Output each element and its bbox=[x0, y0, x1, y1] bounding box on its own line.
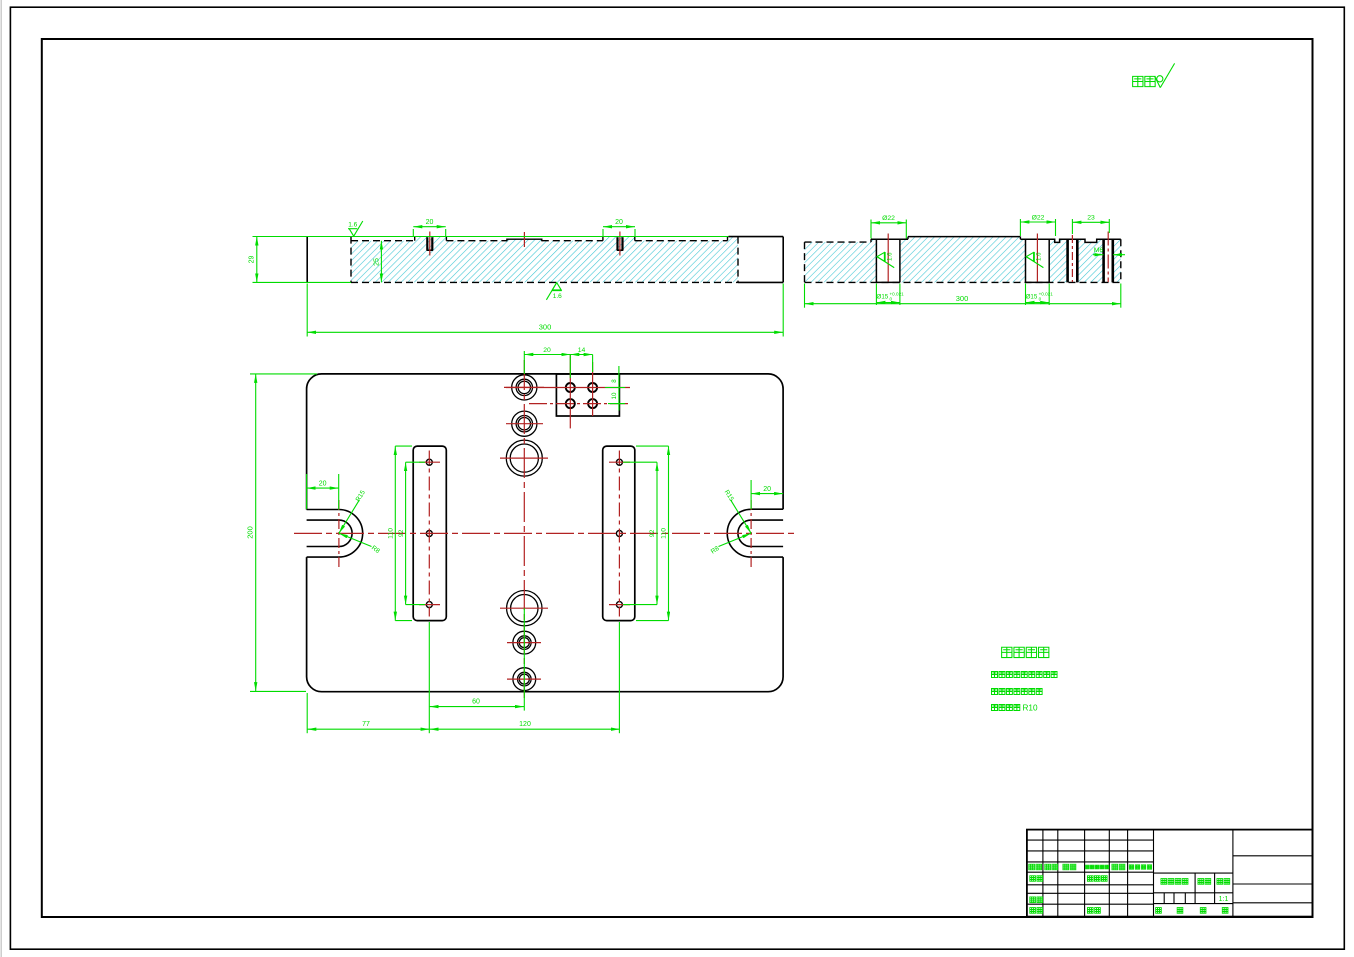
pattern holes row2 centerline bbox=[529, 403, 630, 405]
svg-text:14: 14 bbox=[578, 347, 586, 354]
dimension 110 left slot bbox=[394, 446, 396, 620]
dimension 20 right notch bbox=[751, 493, 783, 495]
left slot holes bbox=[426, 459, 432, 465]
dimension 92 right slot bbox=[656, 462, 658, 604]
left slot bbox=[413, 446, 446, 620]
front view boss centerline bbox=[523, 232, 525, 247]
svg-text:1.6: 1.6 bbox=[1036, 252, 1043, 261]
hole C4 large bbox=[507, 591, 542, 626]
hole C5 small bbox=[513, 631, 536, 654]
tech req line 2 bbox=[991, 688, 997, 694]
plan view plate outline bbox=[307, 374, 783, 692]
surface finish symbol 1.6 top bbox=[349, 229, 354, 237]
front view hatch area bbox=[351, 237, 738, 283]
side view hole band 1 white bbox=[876, 239, 900, 283]
4-hole pattern box bbox=[556, 374, 619, 416]
hole C6 small bbox=[513, 668, 536, 691]
plan center column centerline bbox=[523, 360, 525, 700]
hole C2 cross bbox=[506, 423, 543, 425]
surface finish symbol 1.6 bottom bbox=[552, 283, 561, 290]
svg-text:92: 92 bbox=[649, 529, 656, 537]
dimension D15 tolerance hole 2 bbox=[1025, 284, 1027, 306]
right slot hole crosses bbox=[609, 461, 630, 463]
svg-text:M6: M6 bbox=[1094, 247, 1104, 254]
pattern hole A1 bbox=[566, 383, 575, 392]
right slot bbox=[603, 446, 635, 620]
front view solid outline right end bbox=[729, 236, 784, 238]
dimension 20 left slot front bbox=[413, 226, 445, 228]
hole C1 counterbore bbox=[512, 375, 537, 400]
svg-text:1.6: 1.6 bbox=[887, 252, 894, 261]
side view top solid profile bbox=[870, 239, 872, 242]
front view screw centerline right bbox=[619, 232, 621, 256]
side view band 3 thick edges bbox=[1066, 239, 1069, 282]
left U-notch bbox=[307, 509, 339, 511]
dimension 20 left notch bbox=[307, 487, 339, 489]
dimension 92 left slot bbox=[405, 462, 407, 604]
side view centerline hole 1 bbox=[887, 234, 889, 282]
dimension 200 plate height bbox=[255, 374, 257, 691]
side view band 4 thick edges bbox=[1102, 239, 1105, 282]
svg-text:20: 20 bbox=[319, 480, 327, 487]
right notch center cross bbox=[750, 500, 752, 567]
side view centerline hole 3 bbox=[1071, 235, 1073, 282]
svg-text:29: 29 bbox=[249, 256, 256, 264]
side view hatch area bbox=[805, 237, 1121, 283]
pattern hole A2 bbox=[588, 383, 597, 392]
side view top notch 1 white bbox=[1055, 239, 1060, 242]
label R15 right notch bbox=[731, 500, 752, 534]
title block grid left bbox=[1027, 830, 1313, 917]
svg-text:25: 25 bbox=[373, 258, 380, 266]
svg-text:R15: R15 bbox=[723, 489, 735, 503]
title block grid middle bbox=[1154, 872, 1233, 874]
side view centerline hole 4 bbox=[1107, 232, 1109, 283]
label R8 left notch bbox=[339, 533, 372, 546]
dimension D22 hole 2 bbox=[1020, 221, 1055, 223]
svg-text:Ø15: Ø15 bbox=[877, 294, 889, 301]
side view band 1 edges bbox=[875, 239, 877, 282]
dimension 20 right slot front bbox=[603, 226, 635, 228]
label sheji row bbox=[1030, 876, 1036, 882]
dimension 29 (front thickness) bbox=[256, 237, 258, 283]
dimension 14 pattern bbox=[570, 354, 592, 356]
pattern holes row1 centerline bbox=[506, 387, 630, 389]
pattern hole A4 bbox=[588, 399, 597, 408]
svg-text:10: 10 bbox=[611, 392, 618, 399]
svg-text:300: 300 bbox=[956, 294, 969, 303]
dimension D15 tolerance hole 1 bbox=[875, 284, 877, 306]
label bili bbox=[1217, 878, 1223, 884]
svg-text:120: 120 bbox=[519, 721, 531, 728]
left slot hole crosses bbox=[419, 461, 440, 463]
right slot holes bbox=[616, 459, 622, 465]
front view right screw slot bbox=[616, 237, 618, 250]
left slot centerline bbox=[428, 451, 430, 617]
pattern hole A3 bbox=[566, 399, 575, 408]
svg-text:23: 23 bbox=[1087, 215, 1095, 222]
hole C3 large bbox=[506, 440, 542, 476]
label biaoji row bbox=[1029, 864, 1035, 870]
svg-text:1.6: 1.6 bbox=[553, 293, 562, 300]
label jieduanbiaoji bbox=[1161, 878, 1167, 884]
front view bottom edge dashed bbox=[351, 281, 738, 283]
svg-text:1:1: 1:1 bbox=[1219, 896, 1229, 903]
sheet edge artifact bbox=[0, 0, 2, 957]
svg-text:110: 110 bbox=[387, 528, 394, 539]
label gongyi row bbox=[1030, 907, 1036, 913]
label R8 right notch bbox=[719, 533, 752, 546]
left notch center cross bbox=[338, 500, 340, 567]
svg-text:Ø15: Ø15 bbox=[1026, 294, 1038, 301]
front view hatch boundary dashed verticals bbox=[350, 237, 352, 283]
front view bottom green line bbox=[253, 281, 352, 283]
dimension 300 front view bbox=[307, 331, 783, 333]
svg-text:60: 60 bbox=[472, 699, 480, 706]
dimension 60 bbox=[430, 706, 524, 708]
front view screw centerline left bbox=[429, 232, 431, 256]
label R15 left notch bbox=[339, 500, 360, 534]
dimension 110 right slot bbox=[668, 446, 670, 620]
tech req line 1 bbox=[991, 671, 997, 677]
hole C3 cross bbox=[500, 457, 548, 459]
svg-text:0: 0 bbox=[890, 296, 893, 301]
pattern hole col1 centerline bbox=[569, 354, 571, 428]
svg-text:0: 0 bbox=[1039, 296, 1042, 301]
pattern hole col2 centerline bbox=[592, 362, 594, 416]
right slot centerline bbox=[618, 451, 620, 617]
technical requirements title bbox=[1002, 647, 1012, 657]
front view left end solid outline bbox=[306, 237, 308, 283]
dimension D22 hole 1 bbox=[871, 222, 906, 224]
dimension 8 and 10 pattern bbox=[618, 366, 620, 411]
svg-text:Ø22: Ø22 bbox=[1032, 214, 1045, 221]
svg-text:20: 20 bbox=[615, 219, 623, 226]
hole C5 cross bbox=[507, 642, 541, 644]
side view top notch 2 white bbox=[1085, 239, 1097, 242]
side view centerline hole 2 bbox=[1036, 234, 1038, 282]
front view center boss tab bbox=[507, 239, 542, 241]
side view hole band 3 white bbox=[1067, 239, 1078, 283]
label gong zhang di zhang bbox=[1156, 907, 1162, 913]
svg-text:20: 20 bbox=[543, 347, 551, 354]
svg-text:R15: R15 bbox=[355, 489, 367, 503]
surface symbol 1.6 in hole 2 bbox=[1026, 252, 1033, 261]
svg-text:20: 20 bbox=[426, 219, 434, 226]
side view hole band 4 white bbox=[1103, 239, 1113, 283]
right U-notch bbox=[751, 508, 783, 510]
svg-text:92: 92 bbox=[398, 529, 405, 537]
svg-text:200: 200 bbox=[246, 526, 255, 539]
svg-text:110: 110 bbox=[661, 528, 668, 539]
tech req line 3 bbox=[991, 704, 997, 710]
dimension 25 (hatch depth) bbox=[380, 241, 382, 283]
svg-text:20: 20 bbox=[763, 486, 771, 493]
svg-text:R10: R10 bbox=[1023, 704, 1038, 713]
svg-text:77: 77 bbox=[362, 721, 370, 728]
svg-text:8: 8 bbox=[611, 379, 618, 383]
dimension 300 side view bbox=[805, 303, 1121, 305]
side view band 2 edges bbox=[1025, 239, 1027, 282]
svg-text:Ø22: Ø22 bbox=[882, 215, 895, 222]
hole C4 cross bbox=[500, 607, 548, 609]
dimension 120 bbox=[430, 728, 620, 730]
plan main horizontal centerline bbox=[294, 532, 796, 534]
hole C1 cross bbox=[504, 386, 544, 388]
label shenhe row bbox=[1030, 897, 1036, 903]
dimension 23 hole spacing bbox=[1072, 221, 1109, 223]
front view top green line bbox=[253, 236, 729, 238]
side view hole band 2 white bbox=[1026, 239, 1050, 283]
M6 thread leader bbox=[1093, 254, 1103, 256]
label zhongliang bbox=[1198, 878, 1204, 884]
hole C2 counterbore bbox=[512, 411, 537, 436]
front view step verticals bbox=[414, 237, 416, 241]
front view left screw slot bbox=[426, 237, 428, 250]
surface symbol 1.6 in hole 1 bbox=[877, 252, 884, 261]
svg-text:300: 300 bbox=[539, 323, 552, 332]
dimension 20 pattern bbox=[524, 354, 570, 356]
title block grid right bbox=[1233, 855, 1313, 857]
dimension 77 bbox=[307, 728, 429, 730]
front view top recessed edge dashed bbox=[351, 240, 415, 242]
side view dashed outline bbox=[804, 242, 806, 282]
svg-text:1.6: 1.6 bbox=[348, 221, 357, 228]
hole C6 cross bbox=[507, 678, 541, 680]
qiyu (rest) roughness note bbox=[1133, 76, 1143, 86]
